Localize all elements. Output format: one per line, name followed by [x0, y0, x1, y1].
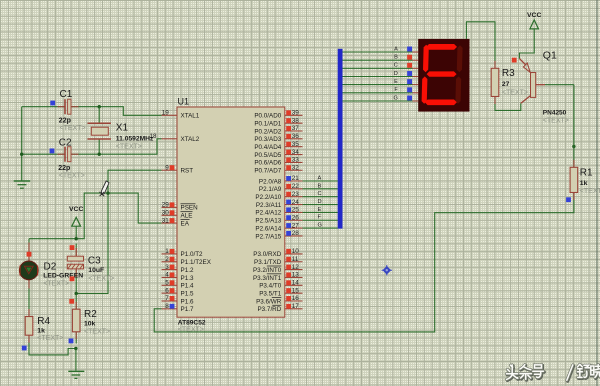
svg-text:25: 25: [292, 207, 300, 214]
svg-text:P0.5/AD5: P0.5/AD5: [254, 152, 281, 159]
svg-text:2: 2: [165, 256, 169, 263]
svg-text:5: 5: [165, 280, 169, 287]
svg-text:P1.2: P1.2: [181, 267, 194, 274]
svg-text:22: 22: [292, 183, 300, 190]
svg-text:23: 23: [292, 191, 300, 198]
svg-text:P2.1/A9: P2.1/A9: [259, 186, 282, 193]
svg-text:E: E: [318, 207, 322, 213]
svg-text:P2.4/A12: P2.4/A12: [255, 210, 281, 217]
svg-text:R3: R3: [502, 68, 515, 79]
svg-text:Q1: Q1: [543, 50, 557, 62]
svg-text:P3.3/INT1: P3.3/INT1: [253, 275, 282, 282]
svg-text:6: 6: [165, 287, 169, 294]
svg-text:1: 1: [165, 248, 169, 255]
svg-text:1k: 1k: [580, 180, 588, 187]
svg-text:10: 10: [292, 248, 300, 255]
svg-text:<TEXT>: <TEXT>: [502, 89, 528, 96]
svg-text:P3.5/T1: P3.5/T1: [259, 290, 282, 297]
svg-text:A: A: [394, 46, 398, 52]
svg-text:22p: 22p: [59, 118, 71, 125]
svg-text:22p: 22p: [58, 165, 70, 172]
svg-text:19: 19: [162, 110, 170, 117]
svg-text:9: 9: [165, 164, 169, 171]
svg-text:F: F: [394, 87, 398, 93]
svg-text:P3.0/RXD: P3.0/RXD: [253, 251, 281, 258]
svg-text:10k: 10k: [84, 321, 96, 328]
svg-text:<TEXT>: <TEXT>: [37, 335, 63, 342]
svg-text:ALE: ALE: [181, 213, 193, 220]
svg-text:B: B: [394, 55, 398, 61]
svg-text:A: A: [318, 175, 322, 181]
svg-text:27: 27: [292, 222, 300, 229]
svg-text:39: 39: [292, 110, 300, 117]
svg-text:13: 13: [292, 272, 300, 279]
svg-text:LED-GREEN: LED-GREEN: [43, 273, 83, 280]
svg-text:P0.4/AD4: P0.4/AD4: [254, 144, 281, 151]
svg-text:B: B: [318, 183, 322, 189]
svg-text:P3.6/WR: P3.6/WR: [256, 298, 282, 305]
svg-text:XTAL2: XTAL2: [181, 136, 200, 143]
svg-text:X1: X1: [116, 122, 129, 133]
svg-text:P1.3: P1.3: [181, 275, 194, 282]
svg-text:15: 15: [292, 287, 300, 294]
svg-text:21: 21: [292, 175, 300, 182]
svg-text:1k: 1k: [37, 327, 45, 334]
svg-text:PN4250: PN4250: [543, 109, 567, 116]
svg-text:27: 27: [502, 81, 510, 88]
svg-text:EA: EA: [181, 220, 190, 227]
svg-text:10uF: 10uF: [88, 267, 104, 274]
svg-text:<TEXT>: <TEXT>: [543, 118, 569, 125]
svg-text:26: 26: [292, 214, 300, 221]
svg-text:E: E: [394, 79, 398, 85]
svg-text:P3.1/TXD: P3.1/TXD: [254, 259, 282, 266]
svg-text:24: 24: [292, 199, 300, 206]
svg-text:32: 32: [292, 164, 300, 171]
svg-text:C: C: [318, 191, 322, 197]
svg-text:P1.5: P1.5: [181, 290, 194, 297]
svg-text:33: 33: [292, 157, 300, 164]
svg-text:P3.2/INT0: P3.2/INT0: [253, 267, 282, 274]
svg-text:U1: U1: [178, 97, 190, 107]
svg-text:P2.7/A15: P2.7/A15: [255, 233, 281, 240]
svg-text:P3.7/RD: P3.7/RD: [257, 306, 281, 313]
svg-text:12: 12: [292, 264, 300, 271]
svg-text:<TEXT>: <TEXT>: [178, 327, 204, 334]
svg-text:VCC: VCC: [69, 206, 83, 213]
svg-text:8: 8: [165, 303, 169, 310]
svg-text:35: 35: [292, 141, 300, 148]
svg-text:R4: R4: [37, 316, 50, 327]
svg-text:F: F: [318, 215, 322, 221]
svg-text:16: 16: [292, 295, 300, 302]
svg-text:<TEXT>: <TEXT>: [116, 143, 142, 150]
svg-text:38: 38: [292, 117, 300, 124]
svg-text:D: D: [318, 199, 322, 205]
svg-text:C3: C3: [88, 256, 101, 267]
svg-text:G: G: [393, 95, 397, 101]
svg-text:<TEXT>: <TEXT>: [84, 329, 110, 336]
svg-text:R1: R1: [580, 168, 593, 179]
svg-text:AT89C52: AT89C52: [178, 319, 206, 326]
svg-text:G: G: [318, 223, 322, 229]
svg-text:P0.1/AD1: P0.1/AD1: [254, 120, 281, 127]
svg-text:28: 28: [292, 230, 300, 237]
svg-text:P0.3/AD3: P0.3/AD3: [254, 136, 281, 143]
svg-text:<TEXT>: <TEXT>: [580, 188, 600, 195]
svg-text:P2.2/A10: P2.2/A10: [255, 194, 281, 201]
svg-text:P1.1/T2EX: P1.1/T2EX: [181, 259, 212, 266]
svg-text:P2.0/A8: P2.0/A8: [259, 178, 282, 185]
svg-text:D2: D2: [44, 261, 57, 272]
svg-text:3: 3: [165, 264, 169, 271]
svg-text:RST: RST: [181, 168, 194, 175]
svg-text:17: 17: [292, 303, 300, 310]
svg-text:34: 34: [292, 149, 300, 156]
svg-text:36: 36: [292, 133, 300, 140]
svg-text:D: D: [394, 71, 398, 77]
svg-text:VCC: VCC: [527, 12, 541, 19]
svg-text:14: 14: [292, 280, 300, 287]
svg-text:<TEXT>: <TEXT>: [60, 125, 86, 132]
svg-text:<TEXT>: <TEXT>: [59, 173, 85, 180]
svg-text:P1.0/T2: P1.0/T2: [181, 251, 204, 258]
svg-text:P0.2/AD2: P0.2/AD2: [254, 128, 281, 135]
svg-text:11.0592MHz: 11.0592MHz: [116, 136, 154, 143]
svg-text:P2.5/A13: P2.5/A13: [255, 218, 281, 225]
svg-text:C: C: [394, 63, 398, 69]
svg-text:11: 11: [292, 256, 299, 263]
svg-text:P1.6: P1.6: [181, 298, 194, 305]
svg-text:P1.4: P1.4: [181, 283, 194, 290]
svg-text:P0.7/AD7: P0.7/AD7: [254, 168, 281, 175]
svg-text:R2: R2: [84, 309, 97, 320]
svg-text:29: 29: [162, 202, 170, 209]
svg-text:<TEXT>: <TEXT>: [43, 281, 69, 288]
svg-text:<TEXT>: <TEXT>: [88, 275, 114, 282]
svg-text:C2: C2: [59, 137, 72, 148]
svg-text:P1.7: P1.7: [181, 306, 194, 313]
svg-text:30: 30: [162, 210, 170, 217]
svg-text:PSEN: PSEN: [181, 205, 199, 212]
svg-text:P0.0/AD0: P0.0/AD0: [254, 113, 281, 120]
svg-text:P2.6/A14: P2.6/A14: [255, 225, 281, 232]
svg-text:P0.6/AD6: P0.6/AD6: [254, 160, 281, 167]
svg-text:31: 31: [162, 217, 170, 224]
svg-text:XTAL1: XTAL1: [181, 113, 200, 120]
svg-text:7: 7: [165, 295, 169, 302]
svg-text:37: 37: [292, 125, 300, 132]
svg-text:4: 4: [165, 272, 169, 279]
svg-text:C1: C1: [60, 89, 73, 100]
svg-text:P2.3/A11: P2.3/A11: [256, 202, 282, 209]
svg-text:P3.4/T0: P3.4/T0: [259, 283, 282, 290]
